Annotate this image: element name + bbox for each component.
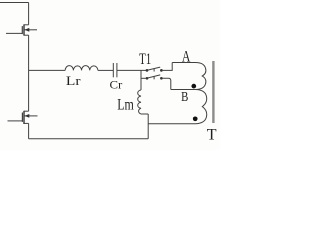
wire top rail (0, 2, 29, 4)
wire primary node vertical bar (140, 70, 142, 90)
wire bottom rail (29, 138, 149, 140)
transformer core T (212, 61, 214, 123)
wire S2 to winding tap (163, 78, 171, 89)
winding polarity dot B (193, 116, 198, 121)
transistor Q1 (high-side MOSFET) (6, 24, 37, 35)
svg-text:A: A (182, 48, 191, 65)
switch S2 (T1 lower contact) (146, 75, 163, 80)
svg-text:Cr: Cr (110, 78, 123, 92)
wire S1 to winding A top (163, 63, 173, 71)
wire left rail Q1 drain (28, 3, 30, 25)
wire Lm bottom stub (141, 113, 148, 115)
inductor Lm (138, 90, 141, 114)
wire bottom return vertical (147, 114, 149, 139)
wire left rail (Q1 source to Q2 drain, midpoint node) (28, 35, 30, 111)
transformer winding A (172, 63, 206, 90)
wire winding tap edge (171, 89, 196, 91)
svg-text:T: T (207, 127, 217, 144)
wire midpoint node to Lr (29, 69, 66, 71)
transistor Q2 (low-side MOSFET) (8, 111, 38, 124)
wire Cr to T1 node (117, 69, 147, 71)
svg-text:B: B (181, 90, 188, 105)
svg-text:T1: T1 (139, 51, 151, 68)
switch S1 (T1 upper contact) (146, 67, 163, 72)
wire Q2 source down (28, 123, 30, 138)
svg-text:Lr: Lr (66, 73, 81, 88)
winding polarity dot A (191, 84, 196, 89)
inductor Lr (65, 66, 98, 71)
wire lower switch stub (141, 77, 146, 79)
transformer winding B (148, 90, 206, 124)
svg-text:Lm: Lm (117, 96, 134, 113)
capacitor Cr (113, 63, 117, 77)
wire Lr to Cr (98, 69, 113, 71)
